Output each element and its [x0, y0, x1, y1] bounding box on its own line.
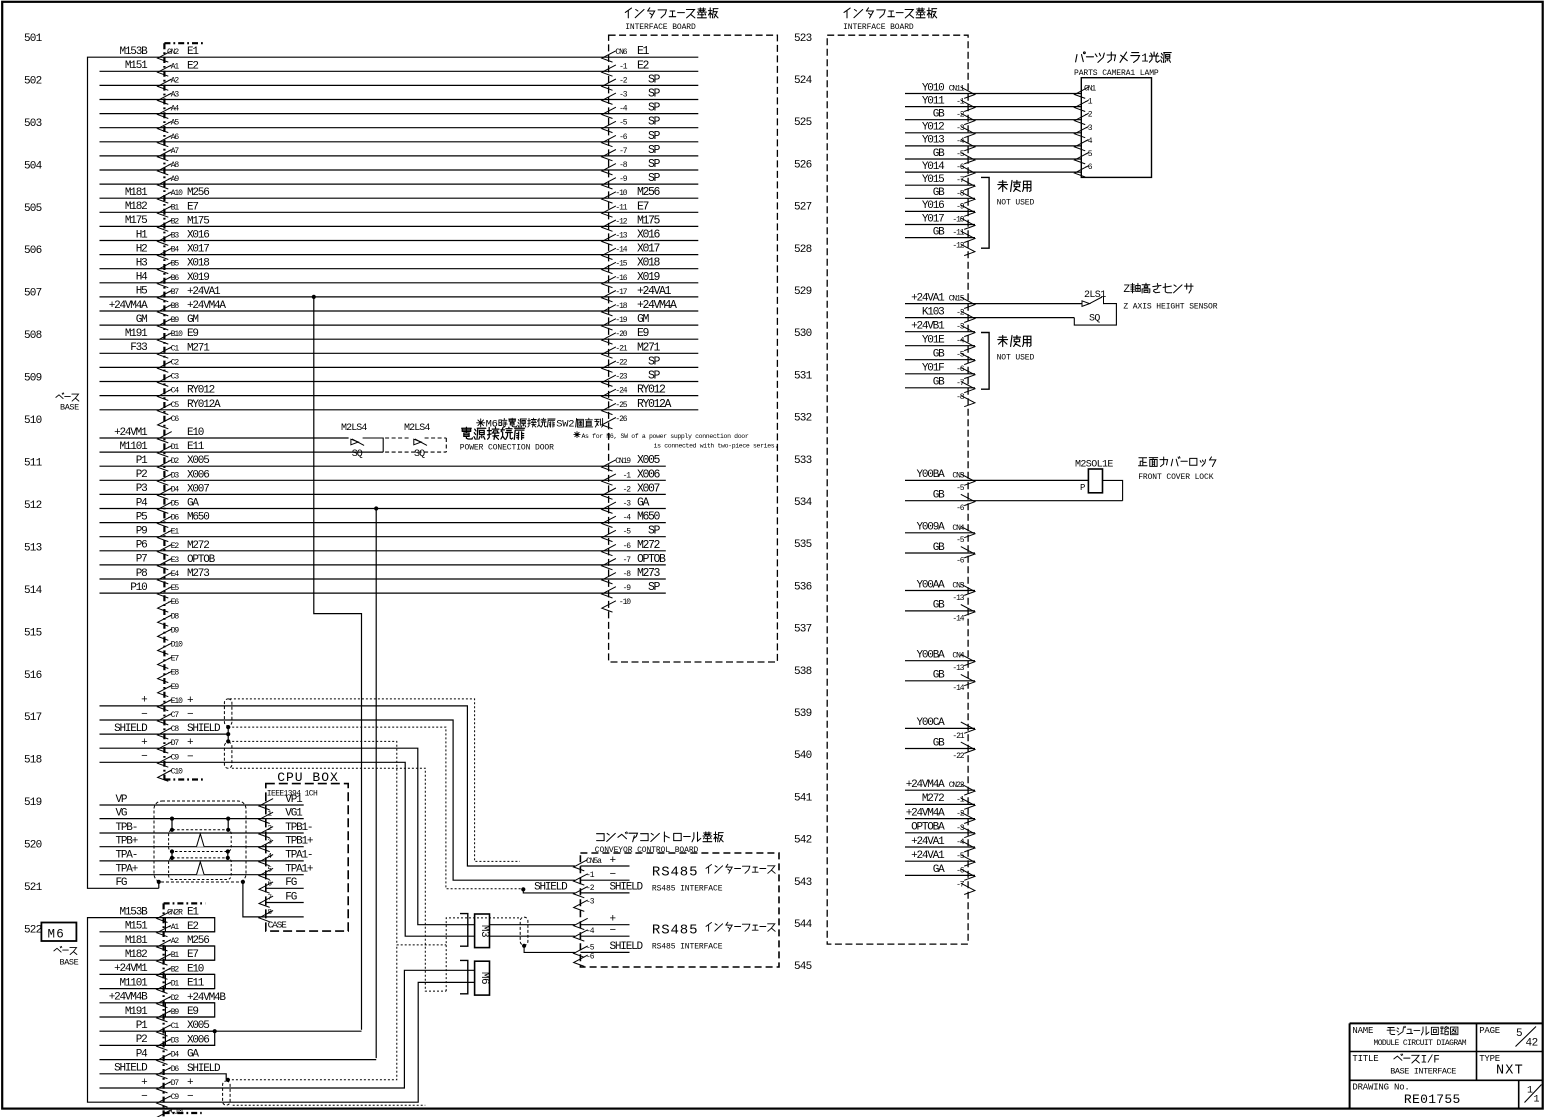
svg-text:-A4: -A4 [167, 105, 179, 114]
CN2 pin -A8 net -A8 row [100, 169, 699, 171]
svg-text:543: 543 [794, 877, 812, 889]
svg-text:532: 532 [794, 413, 812, 425]
svg-text:-B6: -B6 [167, 274, 179, 283]
svg-text:-7: -7 [623, 556, 632, 565]
lamp pin -5 [1075, 153, 1089, 164]
svg-text:-25: -25 [615, 401, 627, 410]
svg-text:E2: E2 [187, 921, 198, 933]
svg-text:507: 507 [24, 288, 42, 300]
svg-text:CPU BOX: CPU BOX [277, 770, 339, 785]
svg-text:SW2: SW2 [556, 418, 574, 430]
svg-text:-1: -1 [619, 62, 628, 71]
svg-text:-6: -6 [956, 365, 965, 374]
svg-text:+: + [141, 1077, 147, 1089]
svg-text:SP: SP [648, 116, 661, 129]
right board pin -5 net GB [905, 359, 975, 361]
svg-text:-26: -26 [615, 415, 627, 424]
svg-text:P1: P1 [136, 455, 148, 467]
svg-text:M650: M650 [187, 512, 209, 524]
CN2 pin -C3 net -C3 row [100, 381, 699, 383]
svg-text:M271: M271 [187, 342, 210, 354]
svg-text:-D9: -D9 [167, 626, 179, 635]
svg-text:P9: P9 [136, 526, 147, 538]
svg-text:-2: -2 [623, 485, 632, 494]
svg-text:542: 542 [794, 835, 812, 847]
svg-text:-D4: -D4 [167, 1051, 179, 1060]
svg-text:-1: -1 [956, 98, 965, 107]
right board pin -6 net Y014 [905, 171, 1081, 173]
lamp pin -3 [1075, 126, 1089, 137]
svg-text:Y01E: Y01E [922, 335, 945, 347]
limit switch 2LS1 (Z axis height sensor) [1082, 301, 1090, 307]
VG to TPB shield ties [171, 819, 173, 830]
svg-text:OPTOBA: OPTOBA [911, 822, 945, 834]
CN2 pin CN2 net E1 row [100, 56, 699, 58]
not used label 1 [998, 181, 1008, 192]
svg-text:-D8: -D8 [167, 612, 179, 621]
svg-text:GB: GB [933, 670, 945, 682]
CN6 pin -2 net SP [602, 79, 616, 90]
svg-text:SP: SP [648, 144, 661, 157]
svg-text:M1101: M1101 [119, 977, 148, 989]
CN2 pin -D6 net M650 row [100, 522, 666, 524]
svg-text:GB: GB [933, 737, 945, 749]
svg-text:-D7: -D7 [167, 1079, 179, 1088]
CN2 pin -A3 net -A3 row [100, 99, 699, 101]
right board pin -22 net GB [905, 748, 975, 750]
right board pin -3 net OPTOBA [905, 832, 975, 834]
svg-text:−: − [610, 925, 616, 937]
svg-text:I/F: I/F [1421, 1055, 1440, 1067]
svg-text:517: 517 [24, 712, 42, 724]
svg-text:-12: -12 [615, 217, 627, 226]
CN6 pin -13 net X016 [602, 234, 616, 245]
svg-text:-E10: -E10 [167, 697, 183, 706]
svg-text:NXT: NXT [1496, 1064, 1524, 1079]
svg-text:is connected with two-piece se: is connected with two-piece series. [654, 443, 778, 450]
svg-text:−: − [141, 1091, 147, 1103]
right board pin -2 net GB [905, 119, 1081, 121]
svg-text:-A1: -A1 [167, 923, 179, 932]
shield tie on SHIELD row C8 [227, 726, 229, 743]
CN2R pin -B9 net E9 row [100, 1016, 215, 1018]
svg-text:SP: SP [648, 158, 661, 171]
svg-text:-18: -18 [615, 302, 627, 311]
svg-text:CN4: CN4 [952, 524, 964, 533]
svg-text:-D3: -D3 [167, 1036, 179, 1045]
svg-text:PARTS CAMERA1 LAMP: PARTS CAMERA1 LAMP [1074, 69, 1159, 78]
svg-text:523: 523 [794, 33, 812, 45]
CPU BOX pin 5 net TPA1+ [100, 874, 266, 876]
svg-text:M175: M175 [187, 215, 209, 227]
svg-text:GA: GA [933, 864, 945, 876]
CN6 pin -25 net RY012A [602, 403, 616, 414]
CN2 pin -E5 net -E5 row [100, 592, 666, 594]
svg-text:F33: F33 [130, 342, 147, 354]
svg-text:GB: GB [933, 226, 945, 238]
svg-text:M191: M191 [125, 1006, 148, 1018]
CN2 pin -C8 net SHIELD row [100, 733, 229, 735]
svg-text:-D7: -D7 [167, 739, 179, 748]
svg-text:-E7: -E7 [167, 655, 179, 664]
svg-text:M273: M273 [637, 567, 661, 580]
wire trunk +24VA1 to CN2R X005 [314, 297, 362, 1030]
svg-text:GB: GB [933, 600, 945, 612]
svg-text:FG: FG [285, 891, 296, 903]
right board pin -12 net (nc) [961, 244, 975, 255]
svg-text:E7: E7 [187, 949, 198, 961]
svg-text:-22: -22 [615, 358, 627, 367]
CN19 pin -10 [602, 601, 616, 612]
svg-text:-10: -10 [619, 598, 631, 607]
CN2R pin -B1 net E7 row [100, 959, 215, 961]
CN2 pin -C1 net M271 row [100, 352, 699, 354]
svg-text:502: 502 [24, 76, 42, 88]
svg-text:-1: -1 [623, 471, 632, 480]
svg-text:-8: -8 [956, 393, 965, 402]
svg-text:X019: X019 [637, 271, 661, 284]
svg-text:-C6: -C6 [167, 415, 179, 424]
svg-text:H2: H2 [136, 243, 147, 255]
CN2 pin -B4 net X017 row [100, 254, 699, 256]
right board pin -5 net +24VA1 [905, 860, 975, 862]
svg-text:RY012: RY012 [637, 384, 666, 397]
svg-text:P1: P1 [136, 1020, 148, 1032]
CN6 pin -20 net E9 [602, 333, 616, 344]
svg-text:-13: -13 [952, 664, 964, 673]
svg-text:Z: Z [1123, 284, 1130, 296]
CN5a pin -6 net (nc) [574, 955, 588, 966]
right board pin -6 net Y01F [905, 373, 975, 375]
svg-text:VP1: VP1 [285, 794, 303, 806]
interface board (middle) title [625, 8, 631, 18]
svg-text:+: + [610, 855, 616, 867]
svg-text:CN1: CN1 [1084, 85, 1096, 94]
svg-text:-24: -24 [615, 387, 627, 396]
CN2 pin -A7 net -A7 row [100, 155, 699, 157]
svg-text:Y00BA: Y00BA [916, 650, 945, 662]
svg-text:+24VM4B: +24VM4B [109, 992, 148, 1004]
svg-text:-A10: -A10 [167, 189, 183, 198]
svg-text:-6: -6 [1084, 163, 1093, 172]
svg-text:MODULE CIRCUIT DIAGRAM: MODULE CIRCUIT DIAGRAM [1374, 1039, 1467, 1048]
CN2 pin -D5 net GA row [100, 508, 666, 510]
CN6 pin -14 net X017 [602, 248, 616, 259]
svg-text:SP: SP [648, 370, 661, 383]
svg-text:GM: GM [136, 314, 147, 326]
svg-text:-5: -5 [619, 119, 628, 128]
note: english M6 door switch series [574, 432, 580, 438]
svg-text:P3: P3 [136, 483, 147, 495]
shield drain bus (dotted) CN2R pair oval bottom run [233, 1104, 426, 1106]
svg-text:H3: H3 [136, 258, 147, 270]
svg-text:-4: -4 [619, 105, 628, 114]
not used label 2 [998, 336, 1008, 347]
svg-text:X018: X018 [637, 257, 661, 270]
svg-text:SQ: SQ [352, 449, 363, 460]
svg-text:VG: VG [116, 807, 127, 819]
svg-text:E11: E11 [187, 441, 205, 453]
svg-text:RS485 INTERFACE: RS485 INTERFACE [652, 885, 723, 894]
svg-text:-D2: -D2 [167, 994, 179, 1003]
svg-text:-21: -21 [952, 732, 964, 741]
svg-text:CN22: CN22 [949, 781, 965, 790]
svg-text:TPA1+: TPA1+ [285, 864, 313, 876]
CN2R pin -A1 net E2 row [100, 931, 215, 933]
svg-text:-14: -14 [952, 614, 964, 623]
IEEE1394 cable shield capsule (outer) [154, 801, 246, 882]
svg-text:-A6: -A6 [167, 133, 179, 142]
svg-text:5: 5 [1516, 1028, 1523, 1040]
connector M3 box [475, 914, 490, 948]
svg-text:7: 7 [268, 895, 272, 903]
svg-text:GM: GM [637, 313, 650, 326]
svg-text:+24VA1: +24VA1 [637, 285, 672, 298]
shield drain bus (dotted) capsule1-top to CN5a pair oval [230, 699, 520, 862]
right board pin CN4-5 net Y009A [905, 532, 975, 534]
svg-text:-B5: -B5 [167, 260, 179, 269]
CN2 pin -E9 net -E9 row [158, 685, 172, 696]
svg-text:P4: P4 [136, 1048, 148, 1060]
svg-text:527: 527 [794, 202, 812, 214]
svg-text:Z AXIS HEIGHT SENSOR: Z AXIS HEIGHT SENSOR [1123, 303, 1217, 312]
svg-text:-C10: -C10 [167, 1107, 183, 1116]
svg-text:-8: -8 [619, 161, 628, 170]
CN6 pin -16 net X019 [602, 276, 616, 287]
svg-text:E1: E1 [187, 907, 199, 919]
svg-text:+: + [141, 695, 147, 707]
svg-text:-3: -3 [956, 323, 965, 332]
svg-text:GA: GA [187, 498, 199, 510]
svg-text:-A3: -A3 [167, 91, 179, 100]
svg-text:42: 42 [1526, 1038, 1538, 1050]
svg-text:525: 525 [794, 117, 812, 129]
svg-text:E10: E10 [187, 963, 204, 975]
svg-text:-6: -6 [956, 556, 965, 565]
svg-text:+24VM4A: +24VM4A [906, 779, 945, 791]
svg-text:X005: X005 [187, 455, 209, 467]
svg-text:-3: -3 [586, 898, 595, 907]
CN2 pin (E10) net E10 row [100, 437, 349, 439]
TPB+ crossover hop [197, 834, 205, 847]
left harness bracket (BASE bundle) [88, 57, 100, 888]
CPU BOX pin 8 net CASE [259, 911, 273, 922]
svg-text:FG: FG [116, 877, 127, 889]
svg-text:519: 519 [24, 797, 42, 809]
parts camera1 lamp title [1084, 52, 1086, 54]
svg-text:+24VB1: +24VB1 [911, 321, 945, 333]
svg-text:539: 539 [794, 708, 812, 720]
svg-text:-5: -5 [1084, 150, 1093, 159]
svg-text:-20: -20 [615, 330, 627, 339]
CN6 pin -21 net M271 [602, 347, 616, 358]
svg-text:-D6: -D6 [167, 514, 179, 523]
svg-text:-C5: -C5 [167, 401, 179, 410]
svg-text:M1101: M1101 [119, 441, 148, 453]
svg-text:544: 544 [794, 919, 813, 931]
svg-text:X018: X018 [187, 258, 209, 270]
svg-text:SP: SP [648, 355, 661, 368]
svg-text:-E3: -E3 [167, 556, 179, 565]
svg-text:CN19: CN19 [615, 457, 631, 466]
svg-text:-15: -15 [615, 260, 627, 269]
CN2 pin -A10 net M256 row [100, 197, 699, 199]
svg-text:P5: P5 [136, 511, 147, 523]
CN2R pin -B2 net E10 row [100, 973, 215, 975]
svg-text:TPB1+: TPB1+ [285, 836, 313, 848]
svg-text:511: 511 [24, 458, 43, 470]
svg-text:-D1: -D1 [167, 443, 179, 452]
CN2 pin -D10 net -D10 row [158, 643, 172, 654]
svg-text:TPB-: TPB- [116, 822, 138, 834]
svg-text:-2: -2 [586, 884, 595, 893]
CN19 pin -4 net M650 [602, 516, 616, 527]
svg-text:GB: GB [933, 542, 945, 554]
CN2 pin -B7 net +24VA1 row [100, 296, 699, 298]
svg-text:M2LS4: M2LS4 [341, 423, 367, 434]
CN2 pin -A4 net -A4 row [100, 113, 699, 115]
svg-text:-12: -12 [952, 242, 964, 251]
TPA+ crossover hop [197, 862, 205, 875]
svg-text:E2: E2 [187, 60, 198, 72]
svg-text:NAME: NAME [1352, 1026, 1373, 1036]
svg-text:X019: X019 [187, 272, 209, 284]
CN2 pin -B3 net X016 row [100, 240, 699, 242]
svg-text:SP: SP [648, 88, 661, 101]
svg-text:+: + [187, 1077, 193, 1089]
svg-text:-B8: -B8 [167, 302, 179, 311]
svg-text:-14: -14 [615, 246, 627, 255]
svg-text:2: 2 [268, 825, 272, 833]
svg-text:M6: M6 [478, 972, 490, 984]
svg-text:-D4: -D4 [167, 485, 179, 494]
lamp pin -6 [1075, 166, 1089, 177]
svg-text:-9: -9 [956, 202, 965, 211]
svg-text:504: 504 [24, 160, 43, 172]
CPU BOX pin (VP1) net VP1 [100, 804, 266, 806]
svg-text:-11: -11 [615, 203, 627, 212]
svg-text:TPB+: TPB+ [116, 836, 138, 848]
CN2R pin -D2 net +24VM4B row [100, 1002, 215, 1004]
svg-text:SHIELD: SHIELD [610, 882, 644, 894]
svg-text:+: + [141, 737, 147, 749]
CN2 pin -D9 net -D9 row [158, 629, 172, 640]
CPU BOX pin 2 net TPB1- [100, 832, 266, 834]
svg-text:E2: E2 [637, 59, 650, 72]
svg-text:-4: -4 [956, 137, 965, 146]
svg-text:-10: -10 [952, 216, 964, 225]
svg-text:509: 509 [24, 373, 42, 385]
svg-text:-C7: -C7 [167, 711, 179, 720]
svg-text:RS485 INTERFACE: RS485 INTERFACE [652, 943, 723, 952]
svg-text:CN15: CN15 [949, 295, 965, 304]
CN2 pin -E10 net + row [100, 706, 575, 866]
right board pin -10 net Y017 [905, 224, 975, 226]
svg-text:-4: -4 [956, 838, 965, 847]
svg-text:POWER CONECTION DOOR: POWER CONECTION DOOR [460, 444, 554, 453]
svg-text:-C1: -C1 [167, 1022, 179, 1031]
CN19 pin -8 net M273 [602, 573, 616, 584]
svg-text:+24VM4B: +24VM4B [187, 992, 226, 1004]
svg-text:M181: M181 [125, 187, 148, 199]
wire trunk GA to CN2R GA [375, 509, 377, 1059]
svg-text:CN11: CN11 [949, 85, 965, 94]
svg-text:-A2: -A2 [167, 76, 179, 85]
junction +24VA1 trunk tap [312, 295, 316, 299]
svg-text:FRONT COVER LOCK: FRONT COVER LOCK [1138, 473, 1214, 482]
svg-text:+24VA1: +24VA1 [911, 292, 945, 304]
svg-text:TPA-: TPA- [116, 850, 138, 862]
svg-text:-6: -6 [623, 542, 632, 551]
parts camera1 lamp box [1081, 78, 1151, 178]
svg-text:Y016: Y016 [922, 200, 944, 212]
CN2 pin -C9 net − row [100, 762, 475, 936]
connector CN2R boundary (dash-dot) [163, 903, 165, 1117]
svg-text:-4: -4 [956, 337, 965, 346]
svg-text:-A5: -A5 [167, 119, 179, 128]
svg-text:NOT USED: NOT USED [997, 199, 1035, 208]
svg-text:538: 538 [794, 666, 812, 678]
svg-text:SP: SP [648, 172, 661, 185]
svg-text:-E8: -E8 [167, 669, 179, 678]
svg-text:P: P [1080, 483, 1085, 493]
svg-text:INTERFACE BOARD: INTERFACE BOARD [843, 23, 914, 32]
svg-text:SHIELD: SHIELD [114, 723, 148, 735]
svg-text:SP: SP [648, 581, 661, 594]
CN2R harness bracket (to M6 base) [88, 918, 100, 1103]
svg-text:-A1: -A1 [167, 62, 179, 71]
CN2 pin -E6 net -E6 row [158, 601, 172, 612]
svg-text:Y014: Y014 [922, 161, 945, 173]
svg-text:X007: X007 [637, 482, 660, 495]
CPU BOX pin 3 net TPB1+ [100, 846, 266, 848]
limit switch M2LS4 alternate (M6 series switch, dashed) [385, 437, 411, 439]
svg-text:1: 1 [1141, 52, 1148, 66]
svg-text:1: 1 [1534, 1095, 1540, 1106]
right board pin -8 net GB [905, 197, 975, 199]
svg-text:530: 530 [794, 328, 812, 340]
svg-text:GB: GB [933, 349, 945, 361]
right board pin -6 net GA [905, 874, 975, 876]
svg-text:VP: VP [116, 794, 128, 806]
svg-text:-B4: -B4 [167, 246, 179, 255]
CN2R pin -D1 net E11 row [100, 988, 215, 990]
right board pin -3 net Y012 [905, 132, 1081, 134]
CN2 pin -A9 net -A9 row [100, 183, 699, 185]
svg-text:-7: -7 [619, 147, 628, 156]
svg-text:Y00AA: Y00AA [916, 579, 945, 591]
svg-text:-B2: -B2 [167, 965, 179, 974]
note: M6 door switch series (Japanese) [477, 419, 485, 427]
svg-text:-B3: -B3 [167, 232, 179, 241]
svg-text:-E9: -E9 [167, 683, 179, 692]
right board pin -8 net (nc) [961, 395, 975, 406]
svg-text:+: + [187, 737, 193, 749]
svg-text:SP: SP [648, 73, 661, 86]
svg-text:-6: -6 [956, 163, 965, 172]
svg-text:E7: E7 [637, 200, 649, 213]
svg-text:-B9: -B9 [167, 1008, 179, 1017]
svg-text:510: 510 [24, 415, 42, 427]
connector M3 bracket [460, 914, 468, 947]
svg-text:-19: -19 [615, 316, 627, 325]
svg-text:512: 512 [24, 500, 42, 512]
CN2 pin -E7 net -E7 row [158, 657, 172, 668]
right board pin -7 net GB [905, 387, 975, 389]
svg-text:-5: -5 [956, 536, 965, 545]
CN6 pin -24 net RY012 [602, 389, 616, 400]
svg-text:GB: GB [933, 109, 945, 121]
